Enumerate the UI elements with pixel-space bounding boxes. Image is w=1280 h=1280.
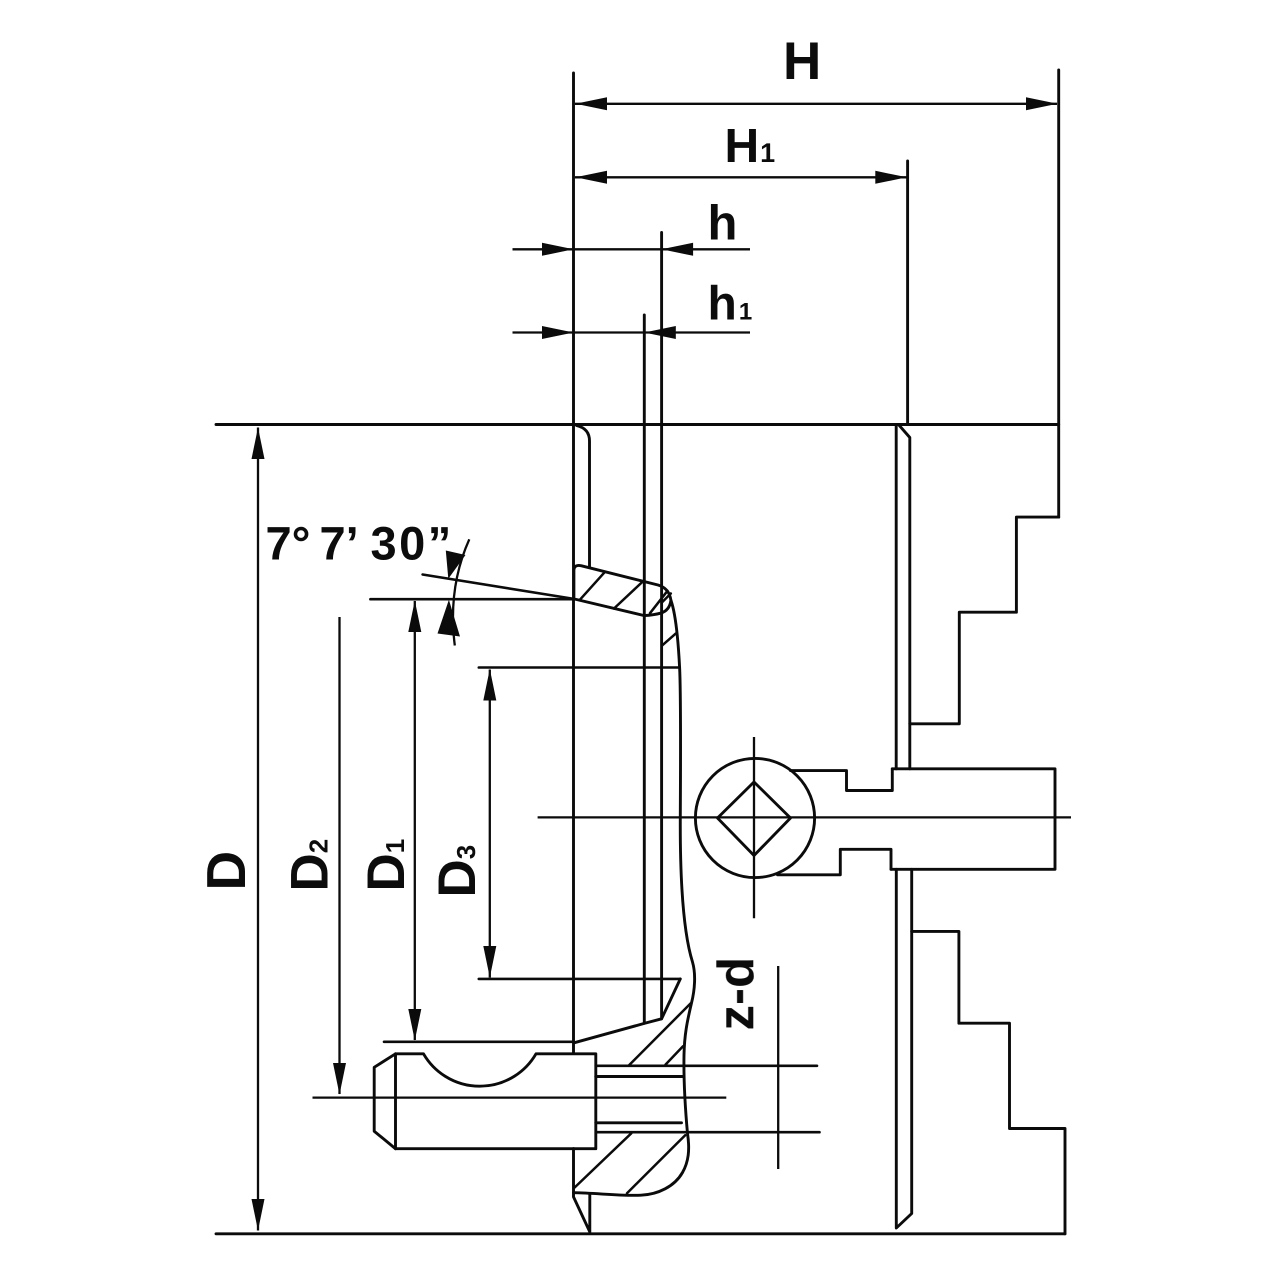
body rear face / h extension line [660, 233, 663, 1019]
bottom jaw steps [912, 931, 1065, 1233]
h dimension line [513, 248, 751, 250]
top jaw steps [910, 517, 1059, 724]
D1 bottom arrowhead [408, 1009, 421, 1041]
angle arc upper arrowhead [446, 551, 466, 579]
D3 lower reference line [479, 978, 681, 981]
angle arc lower arrowhead [438, 600, 461, 637]
D3 upper reference line [479, 666, 680, 669]
angle slanted jaw-face line [423, 575, 574, 599]
bolt thread minor lines [596, 1077, 684, 1123]
jaw rear face [895, 425, 898, 769]
H1 dimension line [575, 176, 907, 178]
D dimension line [257, 428, 259, 1231]
bottom outline line (D lower reference) [216, 1232, 1065, 1235]
bolt centerline [313, 1096, 727, 1098]
top jaw outer face / H extension line [1057, 70, 1060, 517]
D1 dimension line [414, 601, 416, 1040]
body section wavy boundary [574, 601, 695, 1196]
z-d extension line [777, 966, 779, 1169]
square socket diamond [718, 782, 791, 856]
H dimension line [575, 103, 1057, 105]
screw neck top notch [791, 769, 893, 791]
backplate rear face / H extension line [572, 73, 575, 1053]
tooth hatch lines [580, 572, 668, 613]
H right arrowhead [1026, 97, 1058, 110]
svg-text:z-d: z-d [707, 957, 764, 1031]
D bottom arrowhead [252, 1199, 265, 1231]
backplate front face / h1 extension line [643, 315, 646, 1023]
svg-text:h: h [708, 197, 738, 251]
D1 top arrowhead [408, 601, 421, 633]
H1 left arrowhead [576, 171, 608, 184]
body front face / H1 extension line [906, 161, 909, 425]
backplate rear face below bolt [574, 1149, 590, 1232]
screw vertical centerline [753, 737, 755, 918]
screw horizontal centerline [538, 816, 1071, 818]
angle dimension arc [453, 539, 469, 645]
D2 dimension line [338, 617, 340, 1094]
D top arrowhead [252, 428, 265, 460]
h1 left arrowhead [542, 326, 574, 339]
h1 dimension line [513, 331, 751, 333]
h left arrowhead [542, 243, 574, 256]
z-d hole bottom line / thread crest [596, 1131, 820, 1134]
backplate tooth outline [574, 565, 671, 615]
backplate boss face with fillet [577, 426, 590, 568]
angle horizontal reference line [370, 598, 573, 601]
D2 bottom arrowhead [333, 1063, 346, 1095]
svg-text:D: D [195, 851, 257, 891]
z-d hole top line / thread crest [596, 1065, 817, 1068]
svg-text:H: H [783, 32, 821, 91]
H1 right arrowhead [875, 171, 907, 184]
D3 top arrowhead [483, 669, 496, 701]
guideway sliver below screw [896, 869, 911, 1228]
screw neck bottom notch [778, 849, 892, 875]
H left arrowhead [576, 97, 608, 110]
D3 dimension line [489, 670, 491, 978]
h1 right arrowhead [644, 326, 676, 339]
top outline line (D upper reference) [216, 423, 1059, 426]
screw head circle [695, 758, 814, 877]
hatch upper bolt wedge [629, 1004, 691, 1066]
h right arrowhead [662, 243, 694, 256]
bolt head side chamfers [374, 1054, 395, 1149]
D1 lower reference line [384, 1041, 574, 1044]
hatch below tooth [662, 594, 676, 646]
bolt head outline [396, 1054, 596, 1149]
D3 bottom arrowhead [483, 946, 496, 978]
body front face chamfer [899, 425, 910, 769]
hatch lower bolt wedge [575, 1133, 686, 1193]
screw body outline [891, 769, 1055, 870]
countersink cone line [574, 979, 680, 1043]
